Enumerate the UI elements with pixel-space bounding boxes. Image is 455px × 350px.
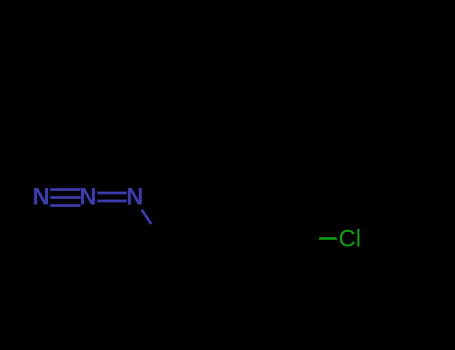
triple bond N1-N2 line 2 [50, 196, 80, 199]
svg-text:N: N [32, 185, 49, 211]
svg-text:N: N [79, 185, 96, 211]
triple bond N1-N2 line 1 [50, 188, 80, 191]
svg-text:N: N [126, 185, 143, 211]
triple bond N1-N2 line 3 [50, 204, 80, 207]
double bond N2-N3 line 1 [97, 192, 126, 195]
svg-text:Cl: Cl [339, 227, 361, 253]
bond C-Cl (green half of single bond) [319, 237, 337, 240]
bond N3-CH2 (blue half of single bond, rest hidden on black) [142, 210, 152, 224]
double bond N2-N3 line 2 [97, 200, 126, 203]
